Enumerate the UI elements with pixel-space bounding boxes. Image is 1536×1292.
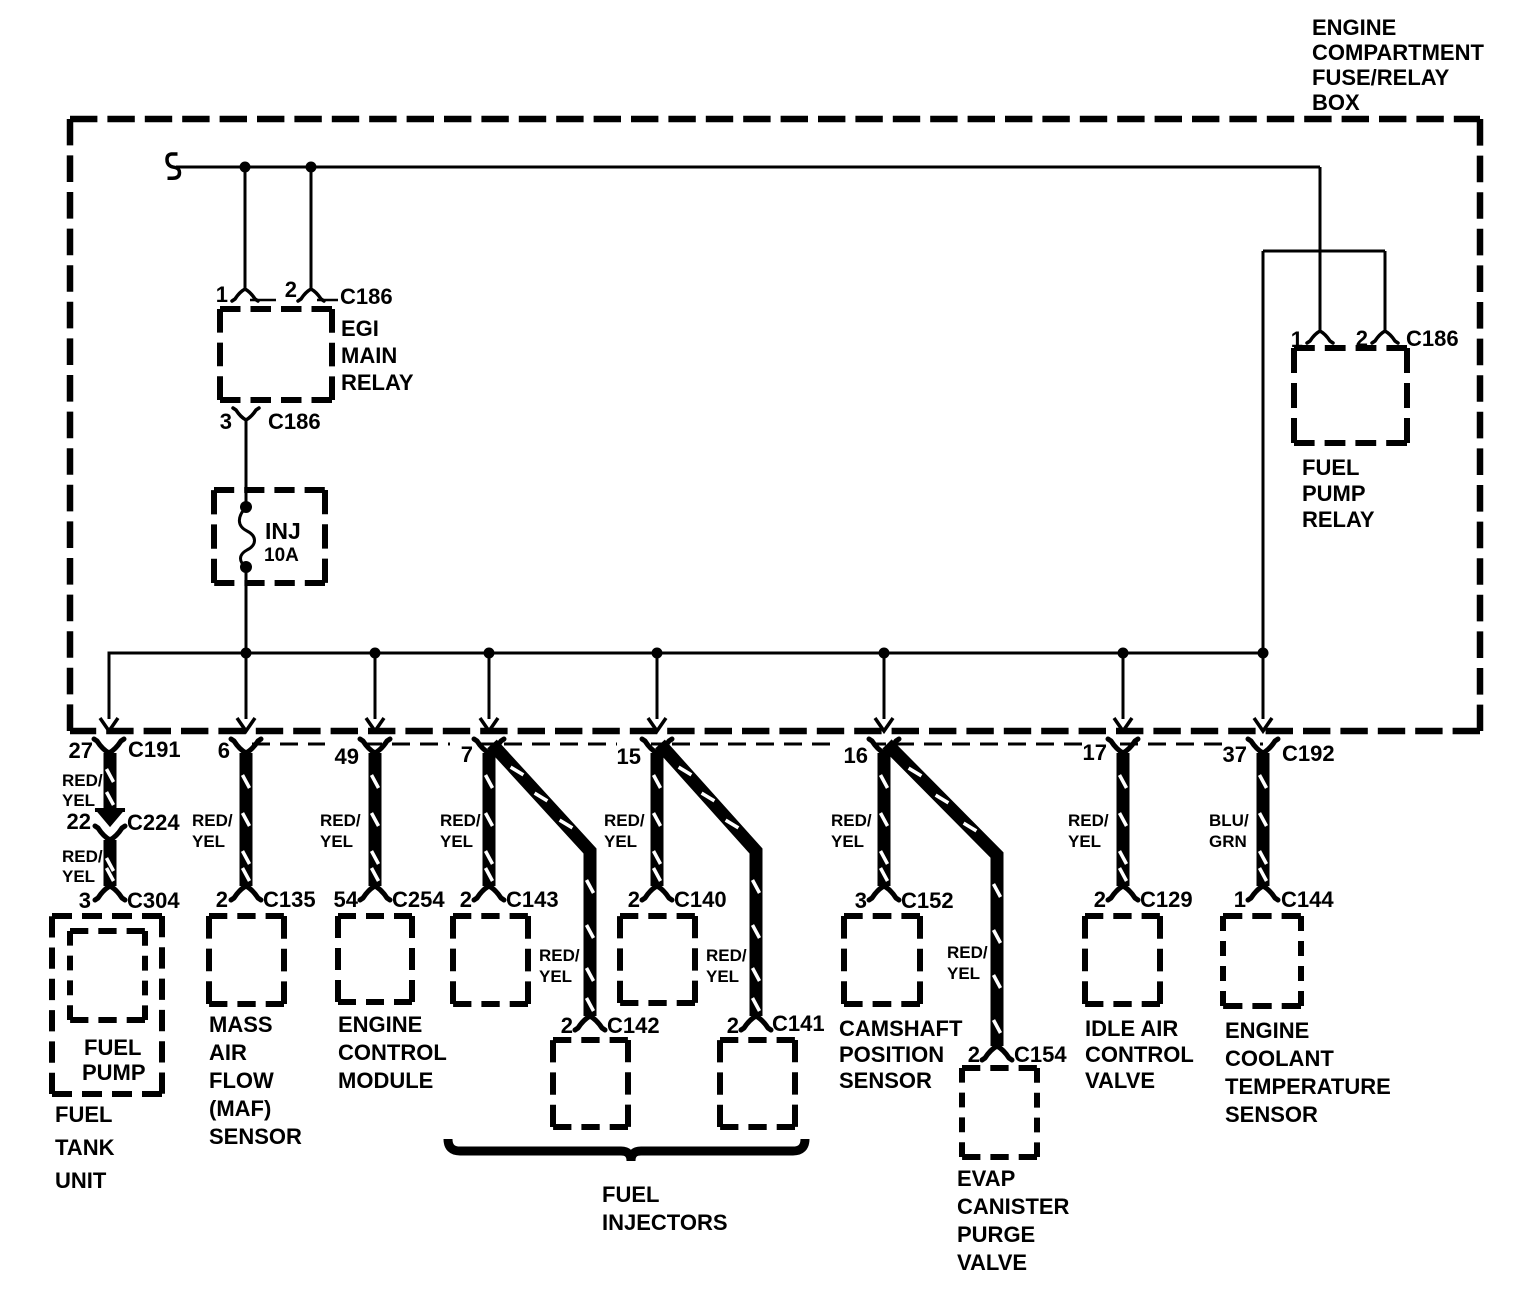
node - bus junction x657: [652, 648, 663, 659]
svg-text:RED/: RED/: [947, 943, 988, 962]
connector pin 2 of C141: [741, 1016, 771, 1030]
svg-text:CAMSHAFT: CAMSHAFT: [839, 1016, 963, 1041]
svg-text:YEL: YEL: [706, 967, 739, 986]
EVAP canister purge valve dashed box C154: [962, 1068, 1037, 1157]
connector pin 2 of C140: [642, 886, 672, 900]
svg-text:TANK: TANK: [55, 1135, 115, 1160]
connector pin 2 of C129: [1108, 886, 1138, 900]
wire RED/YEL from pin 6 to MAF sensor: [240, 753, 253, 886]
connector pin 3 of C152: [869, 886, 899, 900]
wire BLU/GRN from pin 37 to coolant temperature sensor: [1257, 753, 1270, 886]
svg-text:3: 3: [79, 888, 91, 913]
wire RED/YEL from pin 17 to idle air control valve: [1117, 753, 1130, 886]
connector pin 17 at fuse box output row: [1108, 739, 1138, 753]
connector pin 3 of C186 below EGI relay: [233, 408, 259, 420]
arrow into pin 17: [1114, 718, 1132, 731]
svg-text:YEL: YEL: [192, 832, 225, 851]
svg-text:2: 2: [285, 277, 297, 302]
connector pin 1 of C186 at fuel pump relay: [1307, 331, 1333, 343]
in-line connector C224 pins 22: [95, 810, 125, 824]
connector pin 6 at fuse box output row: [231, 739, 261, 753]
wire - main feed horizontal: [176, 166, 1320, 169]
svg-text:AIR: AIR: [209, 1040, 247, 1065]
svg-text:RELAY: RELAY: [341, 370, 414, 395]
svg-text:SENSOR: SENSOR: [1225, 1102, 1318, 1127]
svg-text:54: 54: [334, 887, 359, 912]
svg-text:YEL: YEL: [440, 832, 473, 851]
engine control module dashed box C254: [338, 916, 412, 1002]
svg-text:RED/: RED/: [320, 811, 361, 830]
relay K2 - fuel pump relay box: [1294, 348, 1407, 443]
wire - bus drop to pin 16: [883, 653, 886, 719]
svg-text:EVAP: EVAP: [957, 1166, 1015, 1191]
svg-text:MASS: MASS: [209, 1012, 273, 1037]
svg-text:IDLE AIR: IDLE AIR: [1085, 1016, 1178, 1041]
connector pin 1 of C186 at EGI main relay: [232, 289, 258, 301]
wire RED/YEL from pin 7 to injector C143: [483, 753, 496, 886]
svg-text:MAIN: MAIN: [341, 343, 397, 368]
svg-text:2: 2: [727, 1013, 739, 1038]
svg-text:2: 2: [460, 887, 472, 912]
arrow into pin 15: [648, 718, 666, 731]
svg-text:CONTROL: CONTROL: [338, 1040, 447, 1065]
svg-text:SENSOR: SENSOR: [209, 1124, 302, 1149]
wire - fuel pump relay branch horizontal: [1263, 250, 1385, 253]
brace grouping fuel injectors: [448, 1139, 805, 1161]
wire - bus drop to pin 15: [656, 653, 659, 719]
wire RED/YEL from pin 49 to ECM: [369, 753, 382, 886]
wire - drop to fuel pump relay pin 1: [1319, 167, 1322, 330]
MAF sensor dashed box C135: [209, 916, 284, 1004]
svg-text:(MAF): (MAF): [209, 1096, 271, 1121]
svg-text:GRN: GRN: [1209, 832, 1247, 851]
node - bus junction x489: [484, 648, 495, 659]
svg-text:C154: C154: [1014, 1042, 1067, 1067]
wire RED/YEL from pin 15 to injector C140: [651, 753, 664, 886]
node - bus junction x1123: [1118, 648, 1129, 659]
wire - drop to EGI main relay pin 1: [244, 167, 247, 288]
fuel injector dashed box C143: [453, 916, 528, 1004]
svg-text:C141: C141: [772, 1011, 825, 1036]
engine compartment fuse/relay box dashed outline: [70, 119, 1480, 731]
svg-text:FUEL: FUEL: [1302, 455, 1359, 480]
connector pin 27 at fuse box output row: [94, 739, 124, 753]
svg-text:VALVE: VALVE: [1085, 1068, 1155, 1093]
wire RED/YEL from pin 27 to C224: [104, 753, 117, 810]
svg-text:BOX: BOX: [1312, 90, 1360, 115]
node - junction at EGI relay pin 1 drop: [240, 162, 251, 173]
svg-text:COMPARTMENT: COMPARTMENT: [1312, 40, 1484, 65]
connector pin 2 of C143: [474, 886, 504, 900]
wire - fuel pump relay branch vertical: [1262, 251, 1265, 653]
svg-text:ENGINE: ENGINE: [338, 1012, 422, 1037]
svg-text:POSITION: POSITION: [839, 1042, 944, 1067]
wire - drop to EGI main relay pin 2: [310, 167, 313, 288]
arrow into pin 7: [480, 718, 498, 731]
connector pin 2 of C142: [575, 1016, 605, 1030]
connector pin 16 at fuse box output row: [869, 739, 899, 753]
connector pin 49 at fuse box output row: [360, 739, 390, 753]
svg-text:C129: C129: [1140, 887, 1193, 912]
svg-text:C152: C152: [901, 888, 954, 913]
connector pin 2 of C186 at EGI main relay: [298, 289, 324, 301]
svg-text:FLOW: FLOW: [209, 1068, 274, 1093]
connector pin 3 of C304: [95, 886, 125, 900]
node - bus junction x884: [879, 648, 890, 659]
svg-text:15: 15: [617, 744, 641, 769]
svg-text:RED/: RED/: [62, 771, 103, 790]
arrow into pin 6: [237, 718, 255, 731]
connector pin 7 at fuse box output row: [474, 739, 504, 753]
wire - bus drop to pin 37: [1262, 653, 1265, 719]
svg-text:49: 49: [335, 744, 359, 769]
camshaft position sensor dashed box C152: [844, 916, 920, 1004]
node - bus junction at fuse drop x245: [241, 648, 252, 659]
svg-text:1: 1: [1234, 887, 1246, 912]
arrow into pin 37: [1254, 718, 1272, 731]
node - bus junction x375: [370, 648, 381, 659]
svg-text:RELAY: RELAY: [1302, 507, 1375, 532]
svg-text:YEL: YEL: [62, 791, 95, 810]
svg-text:PURGE: PURGE: [957, 1222, 1035, 1247]
svg-text:3: 3: [220, 409, 232, 434]
connector strip dashed line along fuse box bottom: [252, 743, 1263, 746]
fuse INJ 10A dashed box: [214, 490, 325, 583]
svg-text:MODULE: MODULE: [338, 1068, 433, 1093]
svg-text:37: 37: [1223, 742, 1247, 767]
svg-text:PUMP: PUMP: [1302, 481, 1366, 506]
svg-text:C140: C140: [674, 887, 727, 912]
svg-text:C192: C192: [1282, 741, 1335, 766]
svg-text:TEMPERATURE: TEMPERATURE: [1225, 1074, 1391, 1099]
svg-text:C304: C304: [127, 888, 180, 913]
svg-text:FUEL: FUEL: [602, 1182, 659, 1207]
svg-text:RED/: RED/: [604, 811, 645, 830]
idle air control valve dashed box C129: [1085, 916, 1160, 1004]
svg-text:7: 7: [461, 742, 473, 767]
svg-text:YEL: YEL: [947, 964, 980, 983]
svg-text:SENSOR: SENSOR: [839, 1068, 932, 1093]
arrow into fuse box connector pin 27: [100, 718, 118, 731]
fuel tank unit outer dashed box: [52, 916, 162, 1094]
connector pin 1 of C144: [1248, 886, 1278, 900]
svg-text:YEL: YEL: [539, 967, 572, 986]
svg-text:RED/: RED/: [539, 946, 580, 965]
arrow into pin 16: [875, 718, 893, 731]
wire - drop to fuel pump relay pin 2: [1384, 251, 1387, 330]
svg-text:2: 2: [216, 887, 228, 912]
connector pin 15 at fuse box output row: [642, 739, 672, 753]
engine coolant temperature sensor dashed box C144: [1223, 916, 1301, 1006]
svg-text:EGI: EGI: [341, 316, 379, 341]
relay K1 - EGI main relay box: [220, 309, 332, 400]
svg-text:PUMP: PUMP: [82, 1060, 146, 1085]
connector pin 2 of C135: [231, 886, 261, 900]
svg-text:RED/: RED/: [192, 811, 233, 830]
svg-text:1: 1: [216, 282, 228, 307]
wire - fuse output down to bus: [245, 567, 248, 653]
svg-text:2: 2: [561, 1013, 573, 1038]
wire - bus drop to pin 17: [1122, 653, 1125, 719]
svg-text:C254: C254: [392, 887, 445, 912]
connector pin 37 at fuse box output row: [1248, 739, 1278, 753]
svg-text:C186: C186: [1406, 326, 1459, 351]
wire RED/YEL diagonal from pin 7 to injector C142: [492, 744, 590, 1016]
svg-text:16: 16: [844, 743, 868, 768]
wire - battery feed continuation symbol: [167, 154, 180, 178]
wire RED/YEL from C224 to fuel pump pin 3: [104, 840, 117, 886]
svg-text:COOLANT: COOLANT: [1225, 1046, 1334, 1071]
wire RED/YEL diagonal from pin 16 to EVAP purge valve: [887, 744, 997, 1046]
svg-text:RED/: RED/: [706, 946, 747, 965]
svg-text:3: 3: [855, 888, 867, 913]
svg-text:INJECTORS: INJECTORS: [602, 1210, 728, 1235]
svg-text:C135: C135: [263, 887, 316, 912]
wire RED/YEL diagonal from pin 15 to injector C141: [660, 744, 756, 1016]
svg-text:RED/: RED/: [440, 811, 481, 830]
svg-text:ENGINE: ENGINE: [1312, 15, 1396, 40]
wire - bus drop to pin 49: [374, 653, 377, 719]
svg-text:2: 2: [1094, 887, 1106, 912]
fuse INJ 10A element: [240, 501, 252, 513]
svg-text:ENGINE: ENGINE: [1225, 1018, 1309, 1043]
wire - bus drop to pin 7: [488, 653, 491, 719]
svg-text:C191: C191: [128, 737, 181, 762]
svg-text:RED/: RED/: [1068, 811, 1109, 830]
svg-text:10A: 10A: [264, 545, 299, 566]
svg-text:INJ: INJ: [265, 518, 301, 544]
wire RED/YEL from pin 16 to camshaft position sensor: [878, 753, 891, 886]
svg-text:22: 22: [67, 809, 91, 834]
svg-text:6: 6: [218, 738, 230, 763]
svg-text:YEL: YEL: [604, 832, 637, 851]
fuel injector dashed box C141: [720, 1040, 795, 1127]
fuel injector dashed box C142: [553, 1040, 628, 1127]
connector pin 2 of C154: [982, 1046, 1012, 1060]
svg-text:YEL: YEL: [320, 832, 353, 851]
svg-text:BLU/: BLU/: [1209, 811, 1249, 830]
node - bus junction x1263 fuel pump relay feed: [1258, 648, 1269, 659]
svg-text:UNIT: UNIT: [55, 1168, 107, 1193]
fuel injector dashed box C140: [620, 916, 695, 1003]
svg-text:RED/: RED/: [831, 811, 872, 830]
wire - power distribution bus: [109, 653, 1263, 719]
svg-text:YEL: YEL: [1068, 832, 1101, 851]
svg-text:VALVE: VALVE: [957, 1250, 1027, 1275]
svg-text:FUEL: FUEL: [84, 1035, 141, 1060]
svg-text:2: 2: [968, 1042, 980, 1067]
svg-text:C144: C144: [1281, 887, 1334, 912]
wire - bus drop to pin 6: [245, 653, 248, 719]
svg-text:FUEL: FUEL: [55, 1102, 112, 1127]
connector pin 2 of C186 at fuel pump relay: [1372, 331, 1398, 343]
svg-text:YEL: YEL: [62, 867, 95, 886]
svg-text:C143: C143: [506, 887, 559, 912]
svg-text:27: 27: [69, 738, 93, 763]
svg-text:2: 2: [628, 887, 640, 912]
fuel pump dashed box: [70, 931, 145, 1020]
svg-text:YEL: YEL: [831, 832, 864, 851]
svg-text:RED/: RED/: [62, 847, 103, 866]
wire - EGI relay pin 3 to INJ fuse: [245, 420, 248, 506]
svg-text:C186: C186: [268, 409, 321, 434]
svg-text:CONTROL: CONTROL: [1085, 1042, 1194, 1067]
arrow into pin 49: [366, 718, 384, 731]
svg-text:CANISTER: CANISTER: [957, 1194, 1070, 1219]
svg-text:C224: C224: [127, 810, 180, 835]
svg-text:C142: C142: [607, 1013, 660, 1038]
svg-text:FUSE/RELAY: FUSE/RELAY: [1312, 65, 1450, 90]
connector pin 54 of C254: [360, 886, 390, 900]
svg-text:C186: C186: [340, 284, 393, 309]
svg-text:17: 17: [1083, 740, 1107, 765]
node - junction at EGI relay pin 2 drop: [306, 162, 317, 173]
